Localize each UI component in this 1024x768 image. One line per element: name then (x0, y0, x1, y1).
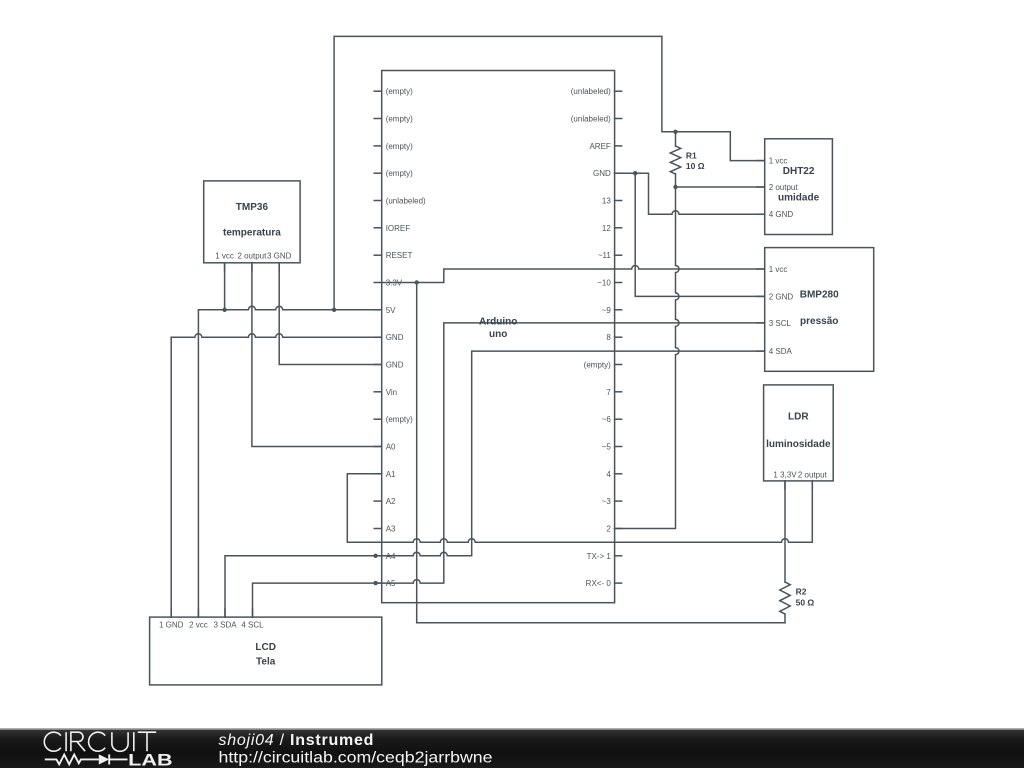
node A5 junction (373, 581, 377, 585)
svg-text:Tela: Tela (256, 657, 276, 668)
sensor TMP36 body (204, 181, 300, 271)
wire 5V drop to LCD vcc (197, 310, 199, 617)
svg-text:(empty): (empty) (386, 87, 413, 96)
sensor BMP280 pressao labels (769, 265, 839, 356)
svg-text:~3: ~3 (602, 497, 612, 506)
wire TMP36 vcc to 5V rail (224, 263, 226, 310)
svg-text:A1: A1 (386, 470, 396, 479)
svg-text:2 output: 2 output (769, 183, 799, 192)
svg-text:1 vcc: 1 vcc (769, 265, 788, 274)
resistor R1 10 ohm (670, 132, 704, 187)
display LCD Tela labels (159, 621, 276, 668)
svg-text:(empty): (empty) (386, 115, 413, 124)
wire GND drop to LCD GND (170, 337, 172, 617)
resistor R2 50 ohm (780, 582, 815, 614)
svg-text:luminosidade: luminosidade (766, 439, 831, 450)
svg-text:~6: ~6 (602, 415, 612, 424)
svg-text:LDR: LDR (788, 412, 809, 423)
wire GND branch to BMP280 GND (635, 173, 765, 296)
svg-text:2 GND: 2 GND (769, 292, 794, 301)
wire Arduino A1 to LDR output (347, 474, 812, 542)
svg-text:(empty): (empty) (584, 361, 611, 370)
svg-text:10 Ω: 10 Ω (686, 161, 705, 171)
node R1 bottom junction (673, 185, 677, 189)
svg-text:1 vcc: 1 vcc (769, 157, 788, 166)
footer banner (0, 728, 1024, 768)
svg-text:4 SDA: 4 SDA (769, 347, 793, 356)
svg-text:2 output: 2 output (798, 470, 828, 479)
wire 5V loop to DHT22 vcc (334, 36, 765, 309)
sensor TMP36 temperatura labels (215, 202, 291, 261)
node R1 top junction (673, 130, 677, 134)
svg-text:R2: R2 (796, 587, 807, 597)
svg-text:shoji04 / Instrumed: shoji04 / Instrumed (219, 732, 375, 749)
wire LCD SDA up to A4 (225, 556, 382, 617)
svg-text:GND: GND (593, 169, 611, 178)
wire TMP36 output to Arduino A0 (252, 263, 382, 447)
wire R1 bottom to DHT22 output (676, 186, 765, 188)
svg-text:TX-> 1: TX-> 1 (587, 552, 612, 561)
svg-text:AREF: AREF (589, 142, 610, 151)
svg-text:3 GND: 3 GND (267, 251, 292, 260)
svg-text:1 GND: 1 GND (159, 621, 184, 630)
svg-text:(empty): (empty) (386, 415, 413, 424)
svg-text:GND: GND (386, 361, 404, 370)
svg-text:4 SCL: 4 SCL (241, 621, 264, 630)
CircuitLab logo resistor-diode glyph (45, 754, 128, 764)
svg-text:(empty): (empty) (386, 142, 413, 151)
wire GND rail to Arduino GND pin (171, 334, 382, 338)
svg-text:4 GND: 4 GND (769, 210, 794, 219)
svg-text:12: 12 (602, 224, 611, 233)
svg-text:uno: uno (489, 329, 507, 340)
wire Arduino GND(right) to DHT22 GND (615, 173, 765, 214)
svg-text:BMP280: BMP280 (800, 289, 839, 300)
wire TMP36 GND to Arduino GND2 (279, 263, 382, 365)
wire Arduino A5 to BMP280 SCL (382, 323, 765, 583)
svg-text:A0: A0 (386, 443, 396, 452)
svg-text:Arduino: Arduino (479, 317, 517, 328)
svg-text:13: 13 (602, 197, 611, 206)
svg-text:4: 4 (606, 470, 611, 479)
svg-text:Vin: Vin (386, 388, 397, 397)
wire R1 bottom down to Arduino pin 2 (615, 187, 679, 529)
svg-text:8: 8 (606, 333, 611, 342)
sensor LDR luminosidade labels (766, 412, 831, 480)
svg-text:temperatura: temperatura (223, 228, 281, 239)
node 5V / TMP36 vcc junction (222, 308, 226, 312)
display LCD body (150, 609, 382, 685)
svg-text:IOREF: IOREF (386, 224, 411, 233)
node A4 junction (373, 554, 377, 558)
svg-text:TMP36: TMP36 (236, 202, 269, 213)
node 5V loop junction (332, 308, 336, 312)
wire Arduino A4 to BMP280 SDA (382, 351, 765, 556)
sensor LDR body (764, 385, 834, 489)
IC U1 Arduino uno labels (386, 87, 612, 588)
svg-text:50 Ω: 50 Ω (796, 598, 815, 608)
svg-text:(unlabeled): (unlabeled) (386, 197, 426, 206)
wire Arduino 3.3V to BMP280 vcc (382, 266, 765, 283)
svg-text:(empty): (empty) (386, 169, 413, 178)
svg-text:http://circuitlab.com/ceqb2jar: http://circuitlab.com/ceqb2jarrbwne (219, 749, 493, 766)
svg-text:5V: 5V (386, 306, 396, 315)
svg-text:GND: GND (386, 333, 404, 342)
wire R2 bottom lead (784, 614, 786, 623)
svg-text:2 output: 2 output (237, 251, 267, 260)
svg-text:A4: A4 (386, 552, 396, 561)
svg-text:LAB: LAB (128, 751, 172, 768)
svg-text:(unlabeled): (unlabeled) (571, 115, 611, 124)
svg-text:umidade: umidade (778, 192, 820, 203)
node GND branch junction (633, 171, 637, 175)
sensor DHT22 umidade labels (769, 157, 820, 220)
sensor BMP280 body (757, 248, 874, 372)
svg-text:~9: ~9 (602, 306, 612, 315)
svg-text:3 SDA: 3 SDA (213, 621, 237, 630)
wire 3.3V drop to R2 bottom (417, 283, 785, 623)
svg-text:3.3V: 3.3V (386, 279, 403, 288)
svg-text:DHT22: DHT22 (783, 166, 815, 177)
IC U1 Arduino uno body (374, 71, 621, 603)
svg-text:A3: A3 (386, 525, 396, 534)
svg-text:7: 7 (606, 388, 611, 397)
sensor DHT22 body (757, 139, 833, 235)
svg-text:A2: A2 (386, 497, 396, 506)
CircuitLab logo CIRCUIT letters (44, 732, 156, 751)
wire LCD SCL up to A5 (253, 583, 382, 617)
svg-text:(unlabeled): (unlabeled) (571, 87, 611, 96)
svg-text:RX<- 0: RX<- 0 (586, 579, 612, 588)
wire 5V rail to Arduino 5V pin (198, 306, 381, 309)
svg-text:~11: ~11 (598, 251, 612, 260)
wire LDR 3,3V pin down to R2 (784, 481, 786, 582)
svg-text:3 SCL: 3 SCL (769, 319, 792, 328)
svg-text:RESET: RESET (386, 251, 413, 260)
node 3.3V junction (415, 280, 419, 284)
svg-text:1 3,3V: 1 3,3V (773, 470, 797, 479)
svg-text:~5: ~5 (602, 443, 612, 452)
svg-text:~10: ~10 (597, 279, 611, 288)
svg-text:pressão: pressão (800, 316, 838, 327)
svg-text:2: 2 (606, 525, 611, 534)
svg-text:LCD: LCD (255, 642, 276, 653)
svg-text:2 vcc: 2 vcc (189, 621, 208, 630)
svg-text:A5: A5 (386, 579, 396, 588)
svg-text:R1: R1 (686, 150, 697, 160)
svg-text:1 vcc: 1 vcc (215, 251, 234, 260)
